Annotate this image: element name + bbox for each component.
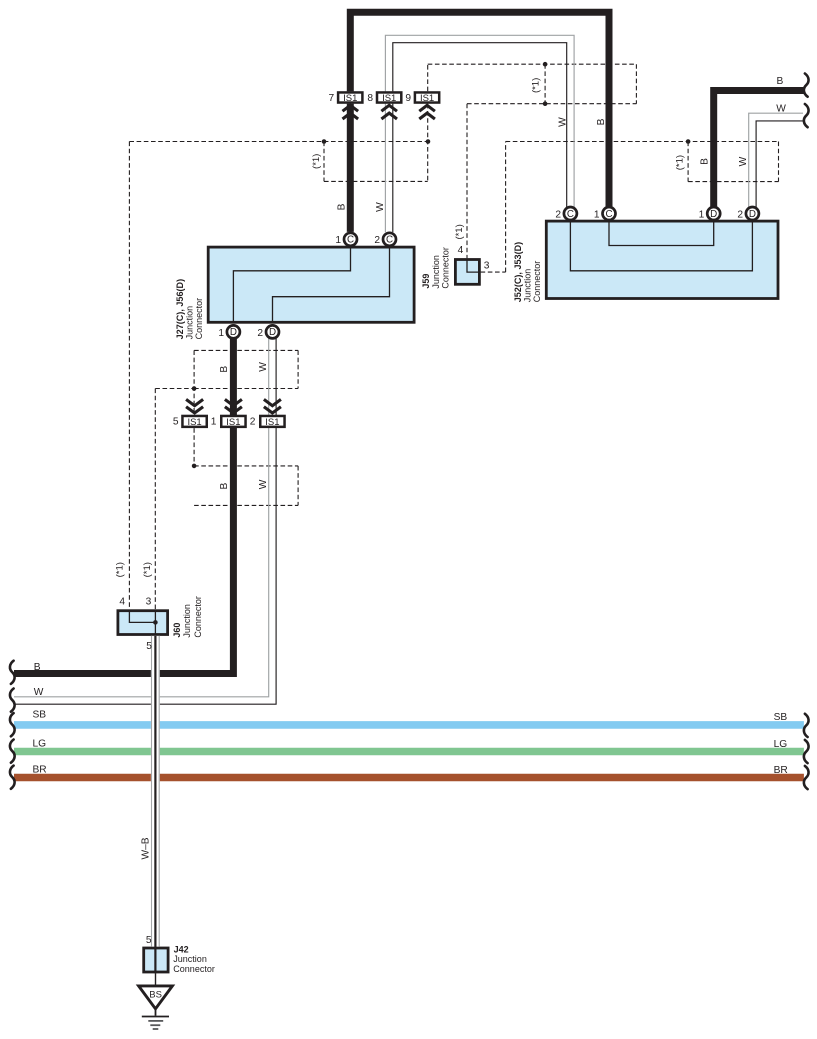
splice IS1 2 [250,399,285,427]
break symbol LG left [10,740,15,763]
pin 2(C) J52 [555,207,577,220]
svg-text:C: C [386,235,393,246]
wire B: IS1-1 down and left to edge [14,428,233,674]
pin 1(C) J52 [594,207,616,220]
svg-text:Junction: Junction [522,269,532,303]
svg-text:5: 5 [173,417,179,428]
pin 2(D) J27 [257,325,279,338]
wire B: J52 pin1(D) up right to edge [714,91,805,208]
svg-text:2: 2 [257,328,263,339]
svg-text:W: W [258,479,269,489]
node dot box A right [426,139,431,144]
splice IS1 7 [329,92,363,119]
svg-text:J60: J60 [172,623,182,638]
wire option box E bottom [194,504,298,506]
wire long dashed to J60 pin3 [154,389,156,610]
wire LG [14,748,804,756]
ground symbol [142,1008,169,1029]
junction connector J52(C), J53(D) [513,221,778,303]
svg-text:D: D [710,209,717,220]
splice IS1 9 [405,92,439,119]
svg-text:Junction: Junction [182,604,192,638]
svg-text:C: C [605,209,612,220]
svg-text:BS: BS [149,990,162,1001]
ground BS triangle [139,986,173,1009]
wire option box A bottom [324,180,428,182]
wire BR [14,774,804,782]
break symbol LG right [804,740,809,763]
BREAK SQUIGGLES [10,74,809,790]
JUNCTION DOTS [192,62,691,468]
break symbol SB right [804,714,809,737]
wire J59 pin4 dashed [466,104,468,259]
svg-text:J59: J59 [421,274,431,289]
wire option box D right [297,350,299,388]
svg-text:SB: SB [33,710,47,721]
svg-text:1: 1 [335,235,341,246]
svg-text:2: 2 [250,417,256,428]
svg-text:Junction: Junction [431,255,441,289]
wire W gray: J52 pin2(D) up [749,113,803,207]
W-WIRES (gray+black pairs) [14,35,803,704]
svg-text:D: D [269,327,276,338]
wire long dashed to J60 pin4 [128,142,130,610]
wire horizontal dashed right y141.5 [506,141,779,143]
pin 2(C) J27 [374,233,396,246]
wire W-B: J60 pin5 to J42 pin5 [151,636,160,973]
wire IS1#5 dashed vertical [193,350,195,415]
THICK-B-WIRES [14,12,805,673]
wire option box B bottom [467,103,636,105]
wire option box B right [635,64,637,104]
svg-text:IS1: IS1 [343,93,357,104]
junction connector J60 [118,596,203,638]
wire J59 pin3 dashed [481,142,506,273]
svg-text:J52(C), J53(D): J52(C), J53(D) [513,242,523,303]
svg-text:J27(C), J56(D): J27(C), J56(D) [175,279,185,340]
svg-text:1: 1 [218,328,224,339]
svg-text:3: 3 [146,596,152,607]
splice IS1 1 [211,399,246,427]
svg-text:(*1): (*1) [674,155,685,170]
wire option box A left [323,142,325,182]
junction connector J42 [144,944,215,974]
svg-text:SB: SB [774,712,788,723]
svg-text:4: 4 [458,245,464,256]
svg-text:W: W [34,687,44,698]
svg-text:2: 2 [737,209,743,220]
svg-text:BR: BR [33,765,47,776]
svg-text:1: 1 [699,209,705,220]
svg-text:B: B [219,482,230,489]
svg-text:IS1: IS1 [265,417,279,428]
svg-text:C: C [347,235,354,246]
svg-text:7: 7 [329,93,335,104]
wire W gray: IS1#8 top run [385,35,574,207]
splice IS1 5 [173,399,207,427]
pin 1(C) J27 [335,233,357,246]
break symbol B left [10,661,15,684]
splice IS1 8 [367,92,401,119]
wire option box B top [428,63,637,65]
svg-text:IS1: IS1 [226,417,240,428]
svg-text:8: 8 [367,93,373,104]
wire dashed IS1#9 up to option box B [427,64,429,91]
svg-text:D: D [749,209,756,220]
svg-text:D: D [230,327,237,338]
wire option box E right [297,466,299,506]
svg-text:W: W [375,202,386,212]
svg-text:B: B [777,76,784,87]
wire horizontal dashed left y141.5 [129,141,428,143]
node dot box E [192,464,197,469]
junction connector J59 [421,247,479,289]
svg-text:IS1: IS1 [420,93,434,104]
wire option box E top [194,465,298,467]
wire W black: J27 pin2(D) down [14,338,276,704]
wire (*1) link in box B [544,64,546,104]
svg-text:Junction: Junction [185,306,195,340]
wire W black: IS1#8 top run [393,43,567,208]
node dot box A left [322,139,327,144]
wire W gray: IS1#8 to J27 pin2(C) [384,104,386,233]
DASHED-NETS [129,64,778,609]
svg-text:3: 3 [484,260,490,271]
svg-text:1: 1 [594,209,600,220]
wire SB [14,721,804,729]
svg-text:5: 5 [146,641,152,652]
break symbol W top right [804,104,809,127]
svg-text:(*1): (*1) [115,562,126,577]
svg-text:B: B [596,118,607,125]
wire option box C right [778,142,780,182]
wire W gray: J27 pin2(D) down [14,338,269,697]
wire option box D top [194,349,298,351]
svg-text:B: B [336,203,347,210]
break symbol BR left [10,766,15,789]
svg-text:W: W [738,156,749,166]
svg-text:2: 2 [374,235,380,246]
svg-text:Connector: Connector [173,964,215,974]
svg-text:2: 2 [555,209,561,220]
svg-text:B: B [699,158,710,165]
wire B: IS1#7 top run to J52 pin1(C) [350,12,609,207]
svg-text:9: 9 [405,93,411,104]
svg-text:Junction: Junction [173,954,207,964]
wire option box C bottom [688,181,778,183]
node dot box B bottom [543,101,548,106]
wire option box C left [687,142,689,182]
svg-text:IS1: IS1 [187,417,201,428]
svg-text:Connector: Connector [441,247,451,289]
wire W black: J52 pin2(D) up [756,121,803,208]
svg-text:(*1): (*1) [454,224,465,239]
break symbol SB left [10,713,15,736]
pin 1(D) J27 [218,325,240,338]
wire B: J27 pin1(D) to IS1-1 [230,338,237,415]
node dot box C [686,139,691,144]
svg-text:(*1): (*1) [311,154,322,169]
svg-text:BR: BR [774,765,788,776]
svg-text:W: W [258,362,269,372]
node dot box D [192,386,197,391]
svg-text:B: B [219,366,230,373]
wire B: IS1#7 to J27 pin1(C) [347,104,354,232]
break symbol BR right [804,766,809,789]
break symbol B top right [804,74,809,97]
pin 2(D) J52 [737,207,759,220]
svg-text:(*1): (*1) [531,78,542,93]
break symbol W left [10,689,15,712]
svg-text:C: C [567,209,574,220]
svg-text:4: 4 [119,596,125,607]
node dot box B top [543,62,548,67]
svg-text:(*1): (*1) [142,562,153,577]
svg-text:Connector: Connector [532,261,542,303]
pin 1(D) J52 [699,207,721,220]
svg-text:Connector: Connector [194,298,204,340]
svg-text:5: 5 [146,935,152,946]
wire IS1#9 down [427,104,429,182]
svg-text:IS1: IS1 [382,93,396,104]
junction connector J27(C), J56(D) [175,247,414,340]
svg-text:LG: LG [774,739,788,750]
svg-text:LG: LG [33,739,47,750]
wire option box D bottom [194,388,298,390]
wire J42 to ground [155,973,157,985]
wire link to J60 pin3 [155,388,194,390]
svg-text:W: W [557,117,568,127]
wire W black: IS1#8 to J27 pin2(C) [392,104,394,233]
svg-text:Connector: Connector [193,596,203,638]
svg-text:W–B: W–B [141,837,152,859]
svg-text:B: B [34,662,41,673]
svg-text:W: W [776,103,786,114]
svg-text:1: 1 [211,417,217,428]
svg-text:J42: J42 [174,944,189,954]
